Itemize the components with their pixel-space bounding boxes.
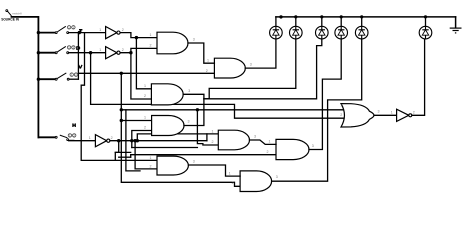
label T	[79, 29, 82, 33]
wire bus to switch T	[38, 32, 55, 34]
node P-branch	[89, 51, 92, 54]
svg-text:3: 3	[188, 89, 190, 93]
wire A6 out to A8 input 1	[188, 165, 240, 176]
node H-box	[117, 139, 120, 142]
node Pn-branch	[129, 51, 132, 54]
node bus-LED5	[360, 15, 363, 18]
inverter U2	[106, 47, 117, 59]
svg-text:1: 1	[229, 171, 231, 175]
label H	[73, 123, 75, 127]
wire U4 out to LED D6	[412, 39, 425, 115]
wire T down to V line	[77, 33, 79, 80]
wire A7 out to LED D4	[309, 39, 341, 150]
wire A3 out to LED D3	[183, 39, 322, 99]
svg-text:1: 1	[99, 48, 101, 52]
LED D4	[335, 26, 348, 39]
node bus-LED6	[424, 15, 427, 18]
wire switch V out	[69, 78, 78, 80]
svg-text:3: 3	[188, 120, 190, 124]
svg-text:3: 3	[250, 63, 252, 67]
AND gate A3	[151, 84, 183, 105]
wire bus to LED D6	[425, 17, 427, 26]
svg-text:3: 3	[312, 144, 314, 148]
wire switch T to inverter U1	[69, 32, 106, 34]
inverter U3	[95, 135, 106, 147]
wire A4 out to LED D2	[204, 39, 296, 99]
svg-text:2: 2	[340, 113, 342, 117]
wire jog	[115, 141, 118, 160]
node Hn-A4	[130, 139, 133, 142]
wire A8 out to LED D5	[272, 39, 362, 181]
inverter U4	[397, 109, 409, 121]
svg-text:1: 1	[150, 156, 152, 160]
wire bus to switch P	[38, 52, 55, 54]
node Hn-A6	[133, 139, 136, 142]
switch P	[55, 46, 68, 53]
wire	[119, 156, 131, 158]
wire bus to LED D5	[361, 17, 363, 26]
node bus-LED2	[294, 15, 297, 18]
svg-text:3: 3	[193, 160, 195, 164]
LED D2	[290, 26, 303, 39]
svg-text:2: 2	[212, 140, 214, 144]
AND gate A6	[157, 156, 188, 175]
svg-text:2: 2	[122, 28, 124, 32]
label V	[79, 65, 82, 69]
wire V branch to AND A4 input 1	[121, 120, 151, 122]
svg-text:1: 1	[150, 33, 152, 37]
wire to OR input 1	[121, 109, 346, 111]
wire Hn link	[132, 147, 198, 149]
AND gate A7	[276, 139, 309, 159]
node Hn-A5	[136, 139, 139, 142]
inverter U1	[106, 27, 117, 39]
LED D6	[419, 26, 432, 39]
switch H	[55, 135, 74, 140]
node V-A4	[120, 119, 123, 122]
svg-text:2: 2	[150, 165, 152, 169]
wire U1 to AND A1 input 1	[120, 33, 157, 38]
svg-text:1: 1	[340, 103, 342, 107]
LED D3	[316, 26, 329, 39]
node bus	[279, 15, 282, 18]
AND gate A1	[157, 32, 188, 54]
node bus-P	[37, 51, 40, 54]
wire to AND A7 input 2	[131, 154, 276, 156]
svg-text:switch8: switch8	[12, 11, 22, 15]
AND gate A2	[214, 58, 245, 78]
svg-text:1: 1	[269, 140, 271, 144]
wire Hn to AND A5 input 1	[137, 134, 218, 141]
svg-text:1: 1	[212, 129, 214, 133]
wire to ground	[455, 17, 457, 28]
node Tn-branch	[135, 36, 138, 39]
node bus-T	[37, 31, 40, 34]
node bus-LED3	[320, 15, 323, 18]
wire U2 to AND A1 input 2	[120, 48, 157, 52]
svg-text:2: 2	[232, 181, 234, 185]
wire A2 out to LED D1	[245, 39, 276, 68]
svg-text:2: 2	[144, 94, 146, 98]
svg-text:1: 1	[144, 116, 146, 120]
switch T	[55, 26, 68, 33]
wire bus to LED D1	[275, 17, 277, 26]
svg-text:2: 2	[150, 44, 152, 48]
switch V	[55, 73, 69, 80]
wire branch to AND A5 input 2	[197, 110, 218, 145]
wire V riser down to AND A8 input 2	[121, 73, 240, 186]
wire A1 to A2 input 1	[188, 43, 214, 63]
LED D5	[355, 26, 368, 39]
switch V state digits	[70, 73, 78, 76]
switch SOURCE	[6, 10, 12, 16]
wire jog U3 to A5 line	[206, 134, 208, 141]
wire P to OR input 2	[91, 53, 346, 119]
wire U3 out	[110, 140, 207, 142]
svg-text:2: 2	[144, 126, 146, 130]
wire bus to LED D3	[321, 17, 323, 26]
wire mid vertical	[125, 110, 127, 152]
wire switch P to inverter U2	[69, 52, 106, 54]
wire top bus	[276, 16, 456, 18]
wire bus to LED D2	[295, 17, 297, 26]
AND gate A5	[218, 130, 249, 150]
svg-text:1: 1	[207, 59, 209, 63]
node bus-V	[37, 78, 40, 81]
wire T branch down to AND A6 input 1	[81, 33, 157, 161]
ground	[450, 28, 462, 33]
svg-text:3: 3	[254, 134, 256, 138]
OR gate O1	[341, 104, 374, 127]
node bus-LED4	[340, 15, 343, 18]
wire A4 out riser	[184, 99, 204, 126]
svg-text:1: 1	[144, 84, 146, 88]
LED D1	[270, 26, 283, 39]
svg-text:SOURCE IN: SOURCE IN	[1, 18, 19, 22]
wire to AND A2 input 2	[78, 72, 214, 74]
AND gate A8	[240, 171, 272, 192]
label P	[77, 46, 80, 50]
svg-text:2: 2	[206, 69, 208, 73]
svg-text:2: 2	[267, 150, 269, 154]
wire Tn branch to AND A3 input 1	[136, 38, 151, 89]
wire bus to switch H	[38, 136, 55, 138]
wire bus to switch V	[38, 78, 55, 80]
svg-text:2: 2	[122, 48, 124, 52]
wire Hn stub down	[131, 141, 133, 148]
svg-text:3: 3	[276, 175, 278, 179]
svg-text:3: 3	[378, 109, 380, 113]
wire OR out to inverter U4	[374, 114, 397, 116]
svg-text:1: 1	[391, 110, 393, 114]
svg-text:1: 1	[89, 136, 91, 140]
wire	[115, 151, 130, 153]
wire Hn to AND A4 input 2	[132, 131, 152, 141]
svg-text:1: 1	[99, 28, 101, 32]
svg-text:2: 2	[111, 136, 113, 140]
wire	[130, 155, 132, 158]
wire stub	[126, 152, 140, 171]
wire switch H to inverter U3	[69, 140, 96, 142]
node V-OR	[120, 108, 123, 111]
svg-text:3: 3	[193, 38, 195, 42]
node OR1-A5	[196, 108, 199, 111]
wire Pn branch to AND A3 input 2	[131, 53, 152, 99]
wire A5 out to A7 input 1	[250, 140, 277, 144]
wire bus to LED D4	[340, 17, 342, 26]
node T	[78, 31, 81, 34]
AND gate A4	[152, 116, 184, 136]
wire source to bus	[12, 17, 39, 137]
node V-branch	[120, 72, 123, 75]
svg-text:2: 2	[413, 110, 415, 114]
wire Hn to AND A6 input 2	[135, 141, 157, 169]
